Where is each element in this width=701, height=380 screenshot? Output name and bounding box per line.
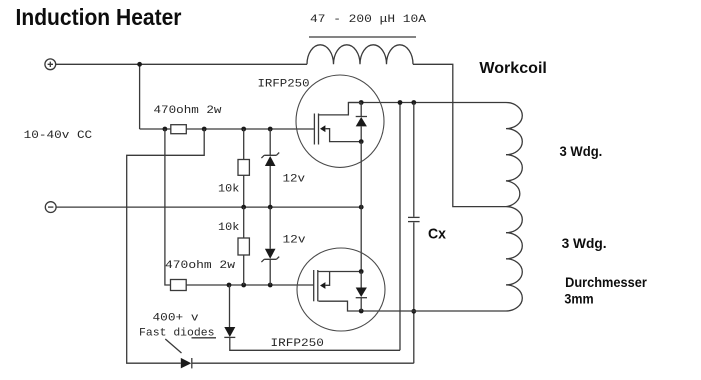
transistor Q2 MOSFET lower: [297, 248, 385, 331]
svg-text:Durchmesser: Durchmesser: [565, 275, 647, 290]
resistor R4 10k lower branch: [238, 207, 249, 285]
capacitor Cx branch: [408, 103, 420, 312]
svg-text:IRFP250: IRFP250: [258, 78, 310, 90]
svg-text:10-40v CC: 10-40v CC: [24, 130, 93, 142]
diode D2 fast diode horizontal: [181, 358, 192, 369]
node minus rail junctions: [241, 205, 246, 210]
node top rail junctions: [359, 100, 364, 105]
svg-text:Cx: Cx: [428, 225, 447, 242]
wire source Q1 down to minus rail: [360, 142, 362, 208]
zener diode Z2 12v lower: [261, 207, 279, 285]
wire minus rail: [56, 206, 361, 208]
wire bottom rail drain Q2 to workcoil bottom: [319, 301, 507, 311]
resistor R2 470ohm 2w body: [171, 280, 187, 291]
wire + rail to inductor: [56, 63, 307, 65]
svg-text:12v: 12v: [283, 235, 307, 247]
svg-text:10k: 10k: [218, 184, 239, 196]
svg-text:IRFP250: IRFP250: [271, 338, 324, 350]
svg-text:Workcoil: Workcoil: [479, 60, 547, 77]
svg-text:12v: 12v: [283, 174, 306, 186]
svg-text:10k: 10k: [218, 222, 239, 234]
resistor R3 10k upper branch: [238, 129, 249, 207]
node junction on + rail: [137, 62, 142, 67]
wire top rail drain Q1 to workcoil top: [348, 102, 506, 104]
wire gate row B to gate of Q2: [186, 284, 314, 286]
zener diode Z1 12v upper: [261, 129, 279, 207]
node source Q1: [359, 139, 364, 144]
terminal + positive input: [45, 59, 56, 70]
wire gate row A left: [140, 128, 171, 130]
wire riser from + rail to gate row A: [139, 64, 141, 129]
svg-text:470ohm 2w: 470ohm 2w: [165, 260, 236, 272]
node source Q2: [359, 269, 364, 274]
terminal - negative input: [45, 202, 56, 213]
svg-text:470ohm 2w: 470ohm 2w: [154, 105, 223, 117]
inductor L1 winding: [307, 45, 413, 65]
node bottom rail junction with Cx/diode branch: [411, 309, 416, 314]
body diode of Q1: [356, 103, 367, 142]
node bottom rail drain Q2: [359, 309, 364, 314]
svg-text:3 Wdg.: 3 Wdg.: [560, 144, 603, 159]
resistor R1 470ohm 2w body: [171, 125, 187, 134]
body diode of Q2: [356, 272, 367, 312]
wire diode D2 to drain Q2 rail: [192, 311, 414, 363]
svg-text:Induction Heater: Induction Heater: [16, 4, 182, 30]
node row B junctions: [227, 283, 232, 288]
wire inductor to center tap riser: [413, 64, 506, 206]
diode D1 fast diode vertical: [224, 103, 400, 351]
wire minus rail to source Q2: [360, 207, 362, 271]
node row A junctions: [163, 127, 168, 132]
underline of fast diodes label: [192, 337, 217, 339]
workcoil winding: [506, 103, 522, 312]
svg-text:3 Wdg.: 3 Wdg.: [562, 236, 607, 251]
wire feedback from gate A down-left-down to bottom diode: [127, 129, 205, 363]
svg-text:3mm: 3mm: [564, 292, 593, 307]
wire riser row A to row B left side: [165, 129, 171, 285]
inductor L1 core bar: [309, 36, 416, 38]
transistor Q1 MOSFET upper: [296, 75, 384, 167]
svg-text:47 - 200 μH 10A: 47 - 200 μH 10A: [310, 14, 427, 26]
wire gate row A right to gate of Q1: [186, 128, 314, 130]
pointer line from label to diode D2: [165, 339, 181, 353]
svg-text:400+ v: 400+ v: [153, 313, 200, 325]
